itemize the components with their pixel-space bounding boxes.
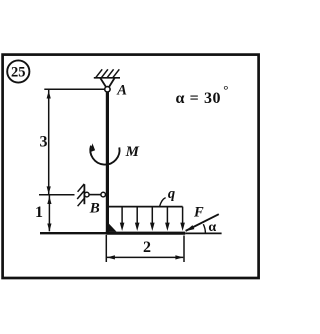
svg-text:M: M	[125, 144, 140, 160]
horizontal reference line at beam end	[185, 232, 221, 234]
dimension 3 bottom arrowhead	[47, 186, 51, 194]
top extension line at A level	[44, 88, 104, 90]
svg-text:1: 1	[35, 204, 43, 221]
corner fillet at rod-beam junction	[109, 224, 117, 232]
bottom extension line from dim 1 to beam	[40, 232, 106, 234]
dimension 2 right arrowhead	[175, 255, 183, 259]
dimension 1 top arrowhead	[47, 196, 51, 204]
rod (vertical bar)	[106, 92, 109, 233]
force F arrowhead	[185, 225, 194, 231]
dimension 2 line	[107, 256, 183, 258]
frame border	[3, 55, 259, 278]
beam (horizontal bar)	[106, 232, 185, 235]
distributed load arrows	[122, 207, 183, 226]
dimension 2 left extension line	[105, 235, 107, 262]
svg-text:A: A	[116, 82, 127, 98]
dimension 1 bottom arrowhead	[47, 224, 51, 232]
dimension 3 vertical line	[48, 90, 50, 194]
angle alpha arc	[203, 224, 205, 233]
support B pin circle right	[101, 192, 106, 197]
force F line	[186, 214, 219, 231]
support B link bar	[89, 194, 101, 196]
svg-text:°: °	[223, 82, 228, 97]
svg-text:B: B	[89, 201, 100, 217]
moment M arrowhead	[91, 143, 96, 152]
svg-text:q: q	[168, 186, 175, 202]
svg-text:α = 30: α = 30	[176, 90, 222, 107]
dimension 1 vertical line	[48, 195, 50, 231]
support A hatch strokes	[95, 69, 119, 78]
support A triangle	[100, 78, 114, 87]
support B pin circle left	[85, 192, 90, 197]
extension tick at B level	[39, 194, 75, 196]
svg-text:F: F	[193, 204, 204, 220]
support B hatch strokes	[77, 184, 84, 206]
dimension 2 left arrowhead	[107, 255, 115, 259]
dimension 3 top arrowhead	[47, 91, 51, 99]
svg-text:25: 25	[11, 65, 26, 81]
svg-text:α: α	[208, 220, 216, 235]
dimension 2 right extension line	[183, 236, 185, 263]
support A hatching baseline	[94, 77, 120, 79]
pin A circle	[105, 87, 110, 92]
distributed load q top line	[107, 206, 183, 208]
problem number circle 25	[7, 60, 29, 82]
label q leader line	[160, 198, 166, 207]
svg-text:2: 2	[143, 239, 151, 256]
moment M arc	[90, 146, 119, 165]
svg-text:3: 3	[40, 134, 48, 151]
support B wall line	[83, 184, 85, 204]
